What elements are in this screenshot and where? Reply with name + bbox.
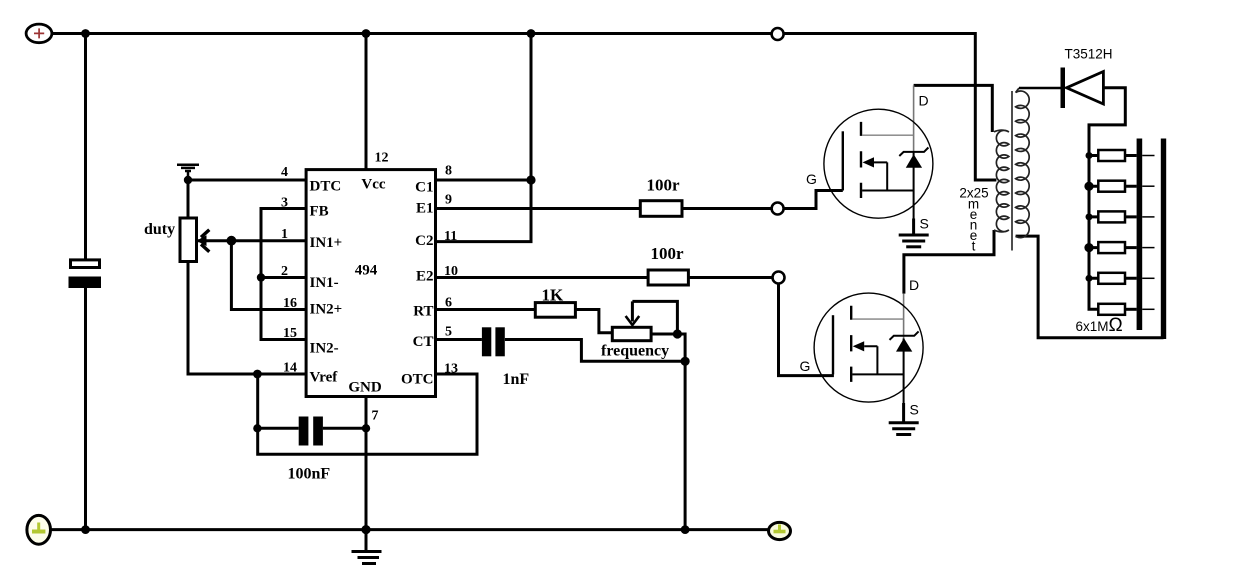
svg-text:8: 8 [445, 164, 452, 179]
svg-text:IN1-: IN1- [310, 275, 339, 291]
svg-text:10: 10 [444, 264, 458, 279]
svg-text:Vcc: Vcc [361, 177, 385, 193]
svg-text:9: 9 [445, 193, 452, 208]
svg-text:494: 494 [355, 263, 378, 279]
svg-text:T3512H: T3512H [1065, 47, 1113, 62]
svg-text:100nF: 100nF [288, 466, 331, 483]
svg-text:G: G [800, 358, 811, 374]
svg-text:IN2+: IN2+ [310, 302, 343, 318]
svg-text:6: 6 [445, 296, 452, 311]
svg-text:14: 14 [283, 361, 297, 376]
svg-text:100r: 100r [647, 176, 681, 195]
svg-text:16: 16 [283, 296, 297, 311]
svg-text:Vref: Vref [310, 370, 339, 386]
svg-text:D: D [909, 277, 919, 293]
svg-text:OTC: OTC [401, 372, 434, 388]
svg-text:IN1+: IN1+ [310, 235, 343, 251]
svg-text:CT: CT [413, 334, 434, 350]
svg-text:11: 11 [444, 229, 457, 244]
svg-text:E1: E1 [416, 201, 434, 217]
svg-text:100r: 100r [651, 244, 685, 263]
svg-text:C2: C2 [415, 233, 433, 249]
svg-text:DTC: DTC [310, 178, 342, 194]
svg-text:IN2-: IN2- [310, 340, 339, 356]
svg-text:D: D [919, 93, 929, 109]
svg-text:1K: 1K [542, 286, 565, 305]
svg-text:FB: FB [310, 204, 329, 220]
svg-text:15: 15 [283, 326, 297, 341]
svg-text:1: 1 [281, 227, 288, 242]
svg-text:13: 13 [444, 362, 458, 377]
svg-text:3: 3 [281, 196, 288, 211]
svg-text:7: 7 [372, 409, 379, 424]
svg-text:12: 12 [375, 151, 389, 166]
svg-text:2: 2 [281, 264, 288, 279]
svg-text:t: t [972, 239, 976, 254]
svg-text:RT: RT [413, 304, 433, 320]
svg-text:6x1MΩ: 6x1MΩ [1076, 315, 1123, 336]
svg-text:5: 5 [445, 325, 452, 340]
svg-text:4: 4 [281, 165, 288, 180]
svg-text:S: S [920, 216, 929, 232]
svg-text:frequency: frequency [601, 343, 669, 360]
svg-text:E2: E2 [416, 269, 434, 285]
svg-text:S: S [910, 402, 919, 418]
svg-text:C1: C1 [415, 180, 433, 196]
svg-text:1nF: 1nF [503, 371, 530, 388]
svg-text:GND: GND [348, 380, 382, 396]
svg-text:duty: duty [144, 221, 175, 238]
svg-text:G: G [806, 171, 817, 187]
